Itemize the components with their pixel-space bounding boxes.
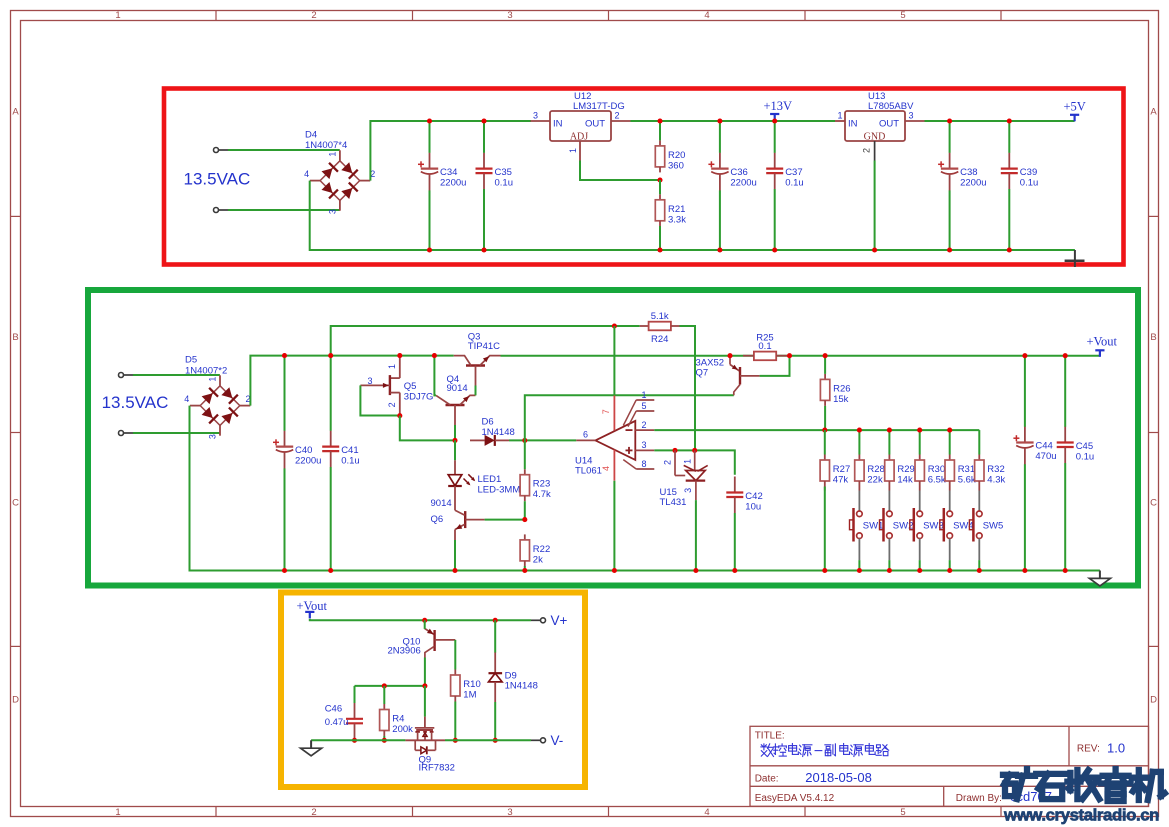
wire [424, 620, 426, 629]
switch SW4 [940, 491, 974, 561]
shunt reference U15 TL431 [660, 450, 708, 508]
resistor R31 [945, 430, 976, 490]
transistor Q6 9014 [431, 498, 485, 540]
svg-text:C37: C37 [785, 167, 802, 178]
wire [228, 149, 340, 151]
wire [311, 739, 405, 741]
svg-text:TIP41C: TIP41C [468, 341, 500, 352]
svg-text:A: A [1150, 107, 1157, 118]
wire [310, 181, 1075, 250]
junction [328, 568, 333, 573]
junction [522, 568, 527, 573]
switch SW3 [910, 491, 944, 561]
svg-text:www.crystalradio.cn: www.crystalradio.cn [1003, 806, 1159, 825]
junction [947, 247, 952, 252]
capacitor C44 [1013, 356, 1056, 571]
transistor Q7 3AX52 [696, 356, 760, 396]
svg-text:IN: IN [848, 119, 858, 130]
svg-text:4: 4 [304, 169, 309, 179]
junction [1022, 568, 1027, 573]
svg-text:R32: R32 [987, 464, 1004, 475]
resistor R30 [915, 430, 946, 490]
svg-text:EasyEDA V5.4.12: EasyEDA V5.4.12 [755, 793, 835, 804]
junction [917, 428, 922, 433]
svg-text:C42: C42 [745, 491, 762, 502]
wire [654, 450, 735, 474]
svg-text:0.1u: 0.1u [1076, 452, 1095, 463]
junction [717, 247, 722, 252]
junction [887, 428, 892, 433]
junction [1022, 353, 1027, 358]
svg-text:2k: 2k [533, 554, 543, 565]
svg-text:C36: C36 [730, 167, 747, 178]
transistor Q5 3DJ7G [360, 356, 433, 416]
svg-text:Drawn By:: Drawn By: [956, 793, 1002, 804]
transistor Q3 TIP41C [454, 331, 501, 385]
wire [858, 560, 860, 570]
wire [874, 161, 876, 251]
resistor R25 [743, 333, 787, 361]
svg-text:Date:: Date: [755, 773, 779, 784]
svg-text:1: 1 [682, 459, 692, 464]
svg-text:B: B [1150, 332, 1156, 343]
watermark 矿石收音机 (drawn strokes) [1003, 769, 1165, 801]
title block [750, 726, 1149, 806]
LED LED1 [448, 440, 520, 510]
svg-text:1N4148: 1N4148 [505, 681, 538, 692]
svg-text:1M: 1M [463, 690, 476, 701]
svg-text:D: D [12, 695, 19, 706]
junction [397, 413, 402, 418]
svg-text:0.1u: 0.1u [785, 178, 804, 189]
capacitor C39 [1001, 121, 1039, 250]
svg-text:+5V: +5V [1064, 100, 1086, 114]
junction [717, 118, 722, 123]
capacitor C46 [325, 703, 363, 740]
junction [857, 568, 862, 573]
wire [355, 685, 425, 687]
capacitor C36 [708, 121, 756, 250]
wire [360, 385, 399, 415]
svg-text:C35: C35 [495, 167, 512, 178]
svg-text:6.5k: 6.5k [928, 475, 946, 486]
wire [454, 540, 456, 571]
svg-text:0.1u: 0.1u [341, 456, 360, 467]
svg-text:D4: D4 [305, 129, 317, 140]
svg-text:TL431: TL431 [660, 497, 687, 508]
junction [947, 568, 952, 573]
junction [1007, 247, 1012, 252]
junction [657, 247, 662, 252]
svg-text:LM317T-DG: LM317T-DG [573, 101, 625, 112]
svg-text:1.0: 1.0 [1107, 740, 1125, 755]
label V+ [551, 613, 568, 628]
wire [509, 439, 576, 441]
op-amp U14 TL061 [575, 390, 654, 481]
svg-text:47k: 47k [833, 475, 849, 486]
svg-text:R31: R31 [958, 464, 975, 475]
terminal J-top-1 [214, 148, 229, 153]
capacitor C41 [322, 356, 360, 571]
svg-text:IN: IN [553, 119, 563, 130]
resistor R29 [885, 430, 915, 490]
svg-text:8: 8 [642, 459, 647, 469]
svg-text:L7805ABV: L7805ABV [868, 101, 914, 112]
wire [494, 620, 496, 652]
svg-text:3: 3 [507, 807, 512, 818]
junction [977, 568, 982, 573]
junction [427, 118, 432, 123]
resistor R21 [655, 180, 686, 250]
svg-text:V+: V+ [551, 613, 568, 628]
svg-text:C: C [12, 498, 19, 509]
transistor Q4 9014 [436, 374, 476, 425]
svg-text:R4: R4 [392, 714, 404, 725]
junction [328, 353, 333, 358]
mosfet Q9 IRF7832 [405, 717, 455, 774]
red group box [164, 89, 1124, 265]
svg-text:3: 3 [642, 440, 647, 450]
wire [760, 356, 790, 376]
junction [857, 428, 862, 433]
wire [925, 120, 1075, 122]
svg-text:0.1u: 0.1u [1020, 178, 1039, 189]
junction [382, 683, 387, 688]
resistor R27 [820, 430, 850, 490]
svg-text:15k: 15k [833, 394, 849, 405]
svg-text:C46: C46 [325, 704, 342, 715]
junction [452, 568, 457, 573]
svg-text:3: 3 [368, 376, 373, 386]
resistor R10 [451, 640, 481, 740]
svg-text:TITLE:: TITLE: [755, 730, 785, 741]
wire [949, 560, 951, 570]
svg-text:2: 2 [862, 148, 872, 153]
svg-text:D: D [1150, 695, 1157, 706]
junction [947, 118, 952, 123]
wire [331, 326, 640, 356]
junction [672, 448, 677, 453]
svg-text:2200u: 2200u [960, 177, 986, 188]
junction [872, 247, 877, 252]
svg-text:1: 1 [115, 807, 120, 818]
diode D6 1N4148 [470, 416, 515, 446]
wire [354, 686, 356, 703]
wire [475, 386, 477, 396]
wire [631, 120, 836, 122]
svg-text:C40: C40 [295, 445, 312, 456]
wire [613, 481, 615, 571]
svg-text:9014: 9014 [447, 383, 468, 394]
svg-text:1N4148: 1N4148 [482, 427, 515, 438]
junction [481, 247, 486, 252]
net flag +Vout (mid) [1087, 334, 1118, 357]
wire [424, 686, 426, 717]
svg-text:C39: C39 [1020, 167, 1037, 178]
terminal V+ port [531, 618, 546, 623]
junction [612, 568, 617, 573]
svg-text:3DJ7G: 3DJ7G [404, 392, 434, 403]
diode bridge D5 [184, 355, 250, 439]
svg-text:1: 1 [387, 364, 397, 369]
net flag +Vout (sub) [297, 599, 328, 619]
svg-text:ADJ: ADJ [570, 131, 588, 142]
svg-text:V-: V- [551, 733, 564, 748]
svg-text:9014: 9014 [431, 498, 452, 509]
junction [522, 517, 527, 522]
junction [772, 118, 777, 123]
junction [823, 353, 828, 358]
capacitor C45 [1057, 356, 1095, 571]
svg-text:3.3k: 3.3k [668, 214, 686, 225]
svg-text:13.5VAC: 13.5VAC [102, 393, 169, 412]
svg-text:A: A [12, 107, 19, 118]
svg-text:10u: 10u [745, 502, 761, 513]
junction [887, 568, 892, 573]
label V- [551, 733, 564, 748]
junction [657, 118, 662, 123]
svg-text:R30: R30 [928, 464, 945, 475]
resistor R28 [855, 430, 885, 490]
svg-text:5: 5 [642, 401, 647, 411]
svg-text:2: 2 [387, 402, 397, 407]
transistor Q10 2N3906 [388, 629, 456, 658]
svg-text:200k: 200k [392, 724, 413, 735]
wire [250, 356, 453, 406]
svg-text:4: 4 [184, 394, 189, 404]
wire [310, 619, 531, 620]
junction [493, 738, 498, 743]
svg-text:2200u: 2200u [295, 455, 321, 466]
svg-text:OUT: OUT [879, 119, 899, 130]
svg-text:5.1k: 5.1k [651, 311, 669, 322]
capacitor C35 [476, 121, 514, 250]
junction [452, 438, 457, 443]
switch SW1 [850, 491, 884, 561]
svg-text:2: 2 [311, 10, 316, 21]
ground (top box) [1065, 250, 1085, 267]
junction [397, 353, 402, 358]
wire [190, 406, 1100, 571]
svg-text:3: 3 [327, 209, 337, 214]
wire [978, 560, 980, 570]
svg-text:R21: R21 [668, 204, 685, 215]
svg-text:470u: 470u [1035, 451, 1056, 462]
svg-text:R10: R10 [463, 679, 480, 690]
wire [424, 658, 426, 686]
svg-text:LED-3MM: LED-3MM [478, 484, 521, 495]
svg-text:3: 3 [208, 434, 218, 439]
wire [454, 425, 456, 440]
wire [613, 326, 615, 396]
junction [822, 568, 827, 573]
resistor R4 [380, 686, 414, 740]
ground (sub box) [301, 740, 322, 756]
svg-text:13.5VAC: 13.5VAC [184, 169, 251, 188]
svg-text:R28: R28 [867, 464, 884, 475]
svg-text:4: 4 [704, 10, 709, 21]
svg-text:4.3k: 4.3k [987, 475, 1005, 486]
resistor R23 [520, 440, 551, 519]
switch SW2 [880, 491, 914, 561]
diode bridge D4 [304, 129, 375, 214]
AC input label 13.5VAC (mid) [102, 393, 169, 412]
svg-text:GND: GND [864, 131, 886, 142]
svg-text:5: 5 [900, 807, 905, 818]
svg-text:R20: R20 [668, 150, 685, 161]
svg-text:1: 1 [568, 148, 578, 153]
svg-text:2: 2 [311, 807, 316, 818]
svg-text:6: 6 [583, 430, 588, 440]
svg-text:1: 1 [838, 110, 843, 120]
junction [693, 568, 698, 573]
svg-text:+13V: +13V [764, 99, 793, 113]
title text 数控电源-副电源电路 (drawn strokes) [761, 744, 889, 757]
svg-text:0.1: 0.1 [758, 341, 771, 352]
junction [453, 738, 458, 743]
junction [493, 618, 498, 623]
svg-text:4: 4 [704, 807, 709, 818]
wire [888, 560, 890, 570]
svg-text:B: B [12, 332, 18, 343]
svg-text:1N4007*4: 1N4007*4 [305, 140, 347, 151]
junction [282, 353, 287, 358]
svg-text:R24: R24 [651, 334, 668, 345]
switch SW5 [969, 491, 1003, 561]
resistor R22 [520, 534, 550, 570]
junction [481, 118, 486, 123]
net flag +5V [1064, 100, 1086, 122]
capacitor C40 [273, 356, 321, 571]
svg-text:C38: C38 [960, 167, 977, 178]
resistor R26 [820, 356, 850, 430]
svg-text:2N3906: 2N3906 [388, 645, 421, 656]
svg-text:TL061: TL061 [575, 465, 602, 476]
resistor R24 [640, 311, 680, 345]
svg-text:REV:: REV: [1077, 743, 1100, 754]
svg-text:1: 1 [208, 377, 218, 382]
wire [695, 500, 697, 570]
junction [732, 568, 737, 573]
svg-text:2: 2 [642, 420, 647, 430]
junction [422, 618, 427, 623]
junction [612, 323, 617, 328]
svg-text:7: 7 [601, 409, 611, 414]
terminal J-mid-1 [119, 373, 134, 378]
svg-text:2200u: 2200u [440, 177, 466, 188]
junction [692, 448, 697, 453]
svg-text:3: 3 [533, 110, 538, 120]
wire [501, 355, 1100, 357]
svg-text:14k: 14k [897, 475, 913, 486]
svg-text:R22: R22 [533, 544, 550, 555]
svg-text:OUT: OUT [585, 119, 605, 130]
junction [422, 683, 427, 688]
svg-text:D5: D5 [185, 355, 197, 366]
junction [772, 247, 777, 252]
svg-text:2200u: 2200u [730, 177, 756, 188]
capacitor C42 [726, 477, 762, 571]
wire [485, 519, 525, 521]
svg-text:D6: D6 [482, 416, 494, 427]
svg-text:R27: R27 [833, 464, 850, 475]
ground (mid box) [1089, 571, 1110, 587]
wire [654, 429, 979, 431]
svg-text:LED1: LED1 [478, 474, 502, 485]
junction [822, 428, 827, 433]
junction [947, 428, 952, 433]
resistor R32 [975, 430, 1006, 490]
yellow group box [281, 593, 585, 788]
AC input label 13.5VAC (top) [184, 169, 251, 188]
junction [427, 247, 432, 252]
svg-text:R26: R26 [833, 383, 850, 394]
wire [494, 702, 496, 740]
svg-text:3: 3 [507, 10, 512, 21]
wire [919, 560, 921, 570]
wire [370, 121, 531, 181]
svg-text:360: 360 [668, 160, 684, 171]
resistor R20 [655, 121, 685, 172]
junction [787, 353, 792, 358]
junction [1063, 568, 1068, 573]
wire [680, 326, 696, 450]
junction [657, 177, 662, 182]
regulator U12 LM317T-DG [531, 91, 631, 160]
svg-text:C44: C44 [1035, 441, 1052, 452]
svg-text:C34: C34 [440, 167, 457, 178]
svg-text:C: C [1150, 498, 1157, 509]
watermark url www.crystalradio.cn [1003, 806, 1159, 825]
terminal J-top-2 [214, 208, 229, 213]
junction [382, 738, 387, 743]
junction [917, 568, 922, 573]
svg-text:R23: R23 [533, 479, 550, 490]
svg-text:0.1u: 0.1u [495, 178, 514, 189]
svg-text:0.47u: 0.47u [325, 717, 349, 728]
svg-text:Q5: Q5 [404, 381, 417, 392]
junction [282, 568, 287, 573]
svg-text:5.6k: 5.6k [958, 475, 976, 486]
svg-text:SW5: SW5 [983, 521, 1004, 532]
svg-text:4: 4 [601, 466, 611, 471]
svg-text:IRF7832: IRF7832 [419, 763, 455, 774]
wire [525, 395, 734, 440]
svg-text:+Vout: +Vout [1087, 334, 1118, 348]
svg-text:C45: C45 [1076, 441, 1093, 452]
junction [1007, 118, 1012, 123]
net flag +13V [764, 99, 793, 121]
junction [352, 738, 357, 743]
wire [133, 432, 220, 434]
wire [824, 487, 826, 571]
svg-text:R29: R29 [897, 464, 914, 475]
wire [133, 374, 220, 376]
svg-text:3: 3 [683, 488, 693, 493]
green group box [88, 290, 1138, 586]
svg-text:+Vout: +Vout [297, 599, 328, 613]
svg-text:2: 2 [662, 460, 672, 465]
svg-text:5: 5 [900, 10, 905, 21]
svg-text:4.7k: 4.7k [533, 489, 551, 500]
svg-text:C41: C41 [341, 445, 358, 456]
capacitor C34 [418, 121, 466, 250]
svg-text:2018-05-08: 2018-05-08 [805, 770, 872, 785]
capacitor C37 [766, 121, 804, 250]
diode D9 1N4148 [489, 652, 538, 702]
wire [445, 739, 531, 741]
wire [228, 209, 340, 211]
